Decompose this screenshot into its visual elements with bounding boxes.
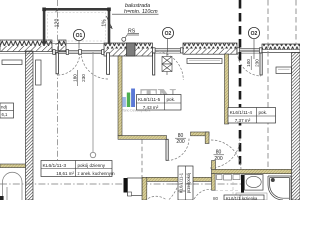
svg-text:180: 180 xyxy=(73,74,78,82)
svg-text:7,37 m²: 7,37 m² xyxy=(235,118,251,123)
window W2 frame (x152.5-183) xyxy=(153,49,184,52)
svg-text:18,61 m²: 18,61 m² xyxy=(56,171,74,176)
window W3 inner sill xyxy=(240,52,260,54)
window W1 mullions xyxy=(53,50,55,55)
tan wall segment x190.5-209 xyxy=(191,132,210,136)
balustrade corner posts xyxy=(42,8,46,12)
exterior wall band C (x183-237) xyxy=(183,43,237,54)
french door left leaf xyxy=(56,53,58,74)
washbasin xyxy=(245,175,264,191)
interior hatched wall x25.5-33 xyxy=(26,51,34,200)
svg-text:KL6/1/11-5: KL6/1/11-5 xyxy=(138,97,161,102)
svg-text:200: 200 xyxy=(176,139,185,145)
shower tray xyxy=(268,176,291,200)
svg-text:KL6/1/1: KL6/1/1 xyxy=(226,196,241,200)
svg-text:łazienka: łazienka xyxy=(242,196,258,200)
section dash line x57.5 xyxy=(57,0,59,160)
right exterior wall xyxy=(292,53,301,201)
O1 symbol xyxy=(73,29,84,40)
svg-text:ndj: ndj xyxy=(1,105,7,110)
heavy dashed section line x240 xyxy=(239,0,242,169)
centerline over hallway box xyxy=(172,183,198,185)
bathroom left wall stub xyxy=(212,174,216,191)
door arc kitchen entry right xyxy=(169,184,179,200)
door leaf at W2 xyxy=(153,53,155,75)
tan wall hallway horizontal xyxy=(118,136,167,140)
wall pier x58-66 xyxy=(59,40,67,52)
bathroom door swing xyxy=(211,140,241,170)
door leaf hallway xyxy=(166,139,168,160)
light dashed x142 kitchen xyxy=(141,140,143,178)
balcony window W1 frame xyxy=(52,50,104,53)
slope 1% arrow xyxy=(102,19,108,27)
french door right leaf xyxy=(107,53,110,75)
french door arcs xyxy=(58,53,80,75)
svg-text:pok.: pok. xyxy=(167,97,176,102)
exterior wall band D (x262-300) xyxy=(262,44,300,53)
door leaf at W3 xyxy=(260,53,262,75)
svg-text:przedpokój: przedpokój xyxy=(186,173,191,194)
balcony balustrade right xyxy=(108,8,111,44)
svg-text:O2: O2 xyxy=(165,31,172,37)
svg-text:O1: O1 xyxy=(76,33,83,39)
door arc kitchen entry left xyxy=(148,196,166,199)
left room bottom wall xyxy=(0,164,26,168)
door arc hallway bottom xyxy=(194,189,211,199)
door swing room 11-4 xyxy=(210,138,240,168)
dash-dot centerline y184 xyxy=(0,183,242,185)
svg-text:1%: 1% xyxy=(102,19,108,27)
tan wall vertical x118-122 xyxy=(118,56,122,136)
O2 symbol a xyxy=(162,27,173,38)
door size 180/230 xyxy=(73,74,78,82)
washer dashed xyxy=(236,193,267,200)
svg-text:pok.: pok. xyxy=(259,110,268,115)
shower head xyxy=(271,178,275,182)
balcony balustrade left xyxy=(43,8,46,44)
light dashed line x296 xyxy=(295,0,297,44)
light dashed line x268 xyxy=(267,0,269,169)
svg-text:KL6/1/11-1: KL6/1/11-1 xyxy=(179,172,184,193)
black plumbing stub xyxy=(241,175,244,193)
svg-text:pokój dzienny: pokój dzienny xyxy=(78,163,106,168)
kitchen tan wall L vertical xyxy=(142,177,147,200)
window W3 frame (x237-262) xyxy=(237,49,262,52)
balcony balustrade top xyxy=(43,8,111,11)
exterior wall band B (x107.5-152.5) xyxy=(104,43,153,56)
balcony slab bottom edge xyxy=(45,43,107,45)
door swing arc W2 xyxy=(155,52,184,81)
svg-text:6,1: 6,1 xyxy=(2,112,8,117)
door swing arc W3 xyxy=(238,53,262,77)
dim 120 xyxy=(55,19,61,28)
window W2 inner sill xyxy=(155,52,180,54)
lamp point leader xyxy=(92,52,94,152)
svg-text:KL6/1/11-3: KL6/1/11-3 xyxy=(43,163,67,169)
door swing hallway xyxy=(167,139,189,161)
svg-text:z anek. kuchennym: z anek. kuchennym xyxy=(78,171,115,176)
svg-text:KL6/1/11-4: KL6/1/11-4 xyxy=(230,110,253,115)
svg-text:120: 120 xyxy=(55,19,61,28)
room label KL6/1/11-3 living room xyxy=(41,161,115,177)
O2 symbol b xyxy=(248,27,259,38)
neighbour label box left xyxy=(0,103,14,118)
kitchen tan wall horizontal xyxy=(147,177,212,181)
room label KL6/1/11-5 xyxy=(137,95,182,111)
svg-text:80: 80 xyxy=(213,196,219,200)
bathroom wall jog xyxy=(212,161,216,170)
svg-text:100: 100 xyxy=(246,59,251,67)
tan wall corner stub xyxy=(205,132,209,144)
tan wall vertical x224-228.5 xyxy=(225,54,229,124)
svg-text:230: 230 xyxy=(254,59,259,67)
radiator left room 2 vertical xyxy=(36,60,42,85)
watermark logo bars xyxy=(123,89,136,108)
arch doorway left room xyxy=(3,172,23,200)
corner black mark xyxy=(0,196,4,200)
hallway rotated label xyxy=(178,166,193,200)
room label KL6/1/11-4 xyxy=(228,108,276,124)
svg-text:O2: O2 xyxy=(251,31,258,37)
svg-text:7,43 m²: 7,43 m² xyxy=(143,105,159,110)
radiator right room xyxy=(276,67,292,74)
radiator under window (room 11-5) xyxy=(187,59,222,64)
svg-text:230: 230 xyxy=(81,74,86,82)
ventilation damper symbol under O2a xyxy=(162,52,172,75)
bathroom top tan wall xyxy=(212,169,292,173)
bathroom fixtures shelf xyxy=(217,175,223,180)
balcony inner edge dashed xyxy=(48,13,106,42)
exterior wall band A (x0-52) xyxy=(0,40,52,54)
column in wall B xyxy=(127,43,136,56)
door size 100/230 xyxy=(246,59,251,67)
radiator left room horizontal xyxy=(2,60,22,65)
kitchen counter xyxy=(128,178,143,196)
kitchen stove black xyxy=(124,178,128,193)
